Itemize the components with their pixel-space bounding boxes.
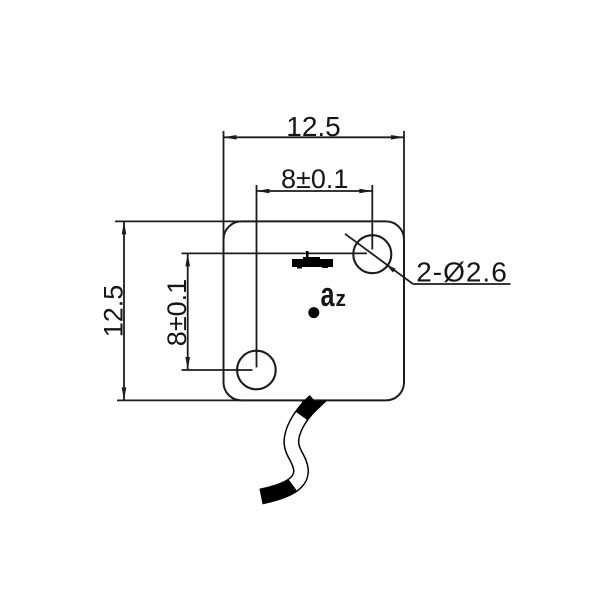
body outline (rounded square part 12.5x12.5)	[224, 221, 405, 400]
svg-text:12.5: 12.5	[286, 111, 341, 142]
extension line bottom edge extended left	[117, 399, 242, 401]
hole H1 top-right	[353, 235, 391, 273]
svg-text:a: a	[321, 276, 335, 314]
extension line hole H2 vertical (to bottom-left hole center)	[256, 185, 258, 368]
dimension line 8±0.1 top	[257, 190, 373, 192]
arrow leader at hole H1	[385, 263, 396, 273]
svg-text:8±0.1: 8±0.1	[281, 164, 348, 194]
arrow left dim up	[122, 221, 127, 234]
arrow left dim down	[122, 387, 127, 400]
extension line hole H1 horizontal (to top-right hole center)	[182, 252, 368, 254]
dimension line 12.5 left	[123, 221, 125, 400]
cable ribbon white middle	[261, 401, 315, 497]
svg-text:2-Ø2.6: 2-Ø2.6	[416, 257, 508, 288]
svg-text:z: z	[336, 287, 346, 312]
logo smudge text block	[292, 251, 333, 269]
cable attachment fan	[298, 401, 327, 416]
cable ribbon black base	[261, 401, 315, 497]
extension line top-right vertical (right edge extended up)	[403, 131, 405, 240]
arrow top 8 dim right	[359, 189, 372, 194]
arrow top 8 dim left	[257, 189, 270, 194]
dimension line 8±0.1 left	[187, 253, 189, 370]
hole H2 bottom-left	[237, 351, 276, 390]
svg-text:8±0.1: 8±0.1	[162, 279, 192, 346]
arrow top dim right	[391, 135, 404, 140]
leader line diagonal through hole H1	[345, 234, 413, 284]
svg-text:12.5: 12.5	[99, 285, 129, 338]
extension line top edge extended left	[115, 220, 242, 222]
extension line hole H1 vertical (to top-right hole center)	[371, 185, 373, 250]
leader line horizontal underline of 2-Ø2.6	[413, 283, 511, 285]
logo dot	[308, 307, 319, 318]
extension line top-left vertical (left edge extended up)	[223, 131, 225, 240]
extension line hole H2 horizontal (to bottom-left hole center)	[182, 369, 253, 371]
arrow top dim left	[224, 135, 237, 140]
arrow left 8 dim down	[185, 357, 190, 370]
dimension line 12.5 top	[224, 136, 405, 138]
arrow left 8 dim up	[185, 253, 190, 266]
